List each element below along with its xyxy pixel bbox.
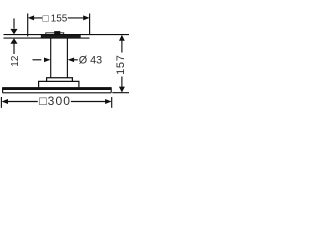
- dim 157 stem top: [121, 40, 123, 52]
- dim 300 line: [7, 101, 105, 103]
- dim 12 stem bottom: [13, 43, 15, 54]
- svg-text:12: 12: [10, 55, 21, 67]
- dim 157 top arrow: [119, 35, 125, 41]
- head bottom line: [3, 92, 112, 94]
- step: [39, 81, 79, 87]
- dim 157 bottom reference line: [112, 92, 129, 94]
- connector pipe: [51, 39, 68, 78]
- dim 157 stem bottom: [121, 77, 123, 88]
- escutcheon cover box tab: [54, 31, 60, 35]
- dia 43 right-pointing arrow: [44, 58, 51, 63]
- dim 300 left arrow: [2, 99, 9, 104]
- dim 12 up arrow: [10, 38, 17, 44]
- dim 155 left extension: [27, 14, 29, 37]
- dim 12 stem top: [13, 18, 15, 28]
- dim 155 right extension: [89, 14, 91, 35]
- svg-text:□300: □300: [39, 94, 71, 108]
- ceiling line: [4, 34, 130, 36]
- dim 300 left extension: [0, 97, 2, 108]
- head right edge: [110, 87, 112, 93]
- svg-text:157: 157: [115, 54, 127, 74]
- svg-text:□ 155: □ 155: [43, 13, 68, 24]
- dia 43 leader right: [74, 59, 78, 61]
- dia 43 leader tail: [33, 59, 42, 61]
- dim 12 down arrow: [10, 29, 17, 35]
- dim 155 left arrow: [28, 15, 34, 20]
- dim 157 bottom arrow: [119, 87, 125, 93]
- dia 43 left-pointing arrow: [68, 58, 75, 63]
- dim 300 right extension: [111, 97, 113, 108]
- flange: [47, 78, 73, 82]
- svg-text:Ø 43: Ø 43: [79, 54, 102, 66]
- escutcheon bottom line: [4, 37, 90, 39]
- escutcheon plate: [41, 35, 80, 38]
- escutcheon cover box: [46, 33, 64, 35]
- head top bar: [3, 87, 112, 90]
- dim 300 right arrow: [105, 99, 112, 104]
- head left edge: [2, 87, 4, 93]
- dim 155 line: [34, 17, 84, 19]
- dim 155 right arrow: [83, 15, 89, 20]
